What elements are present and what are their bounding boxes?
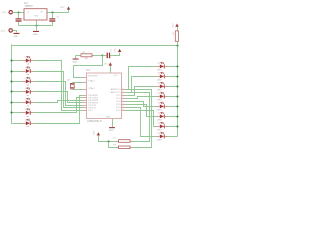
svg-text:18: 18: [122, 106, 124, 108]
pin P3.5/T1: [83, 108, 97, 110]
wire LED D7 to IC1 pin P3: [34, 96, 83, 124]
svg-text:red: red: [158, 132, 161, 134]
svg-text:LED?: LED?: [25, 78, 31, 80]
LED D2 (left column): [22, 67, 34, 76]
pin P1.5: [116, 103, 125, 106]
LED D11 (right column): [157, 92, 168, 102]
pin GND (IC1 bottom): [106, 116, 113, 127]
svg-text:19: 19: [122, 109, 124, 111]
svg-text:red: red: [26, 64, 29, 66]
LED D1 (left column): [22, 56, 34, 65]
wire LED D10 to right bus: [168, 86, 178, 88]
LED D3 (left column): [22, 77, 34, 86]
supply symbol VCC (IC1): [104, 62, 112, 65]
svg-text:LED?: LED?: [25, 57, 31, 59]
node bus junction row 5: [10, 101, 12, 103]
wire crystal to XTAL1: [73, 83, 83, 84]
LED D10 (right column): [157, 82, 168, 92]
wire C3 to ground rail: [52, 22, 54, 26]
pin P1.4: [116, 100, 125, 103]
svg-text:15: 15: [122, 97, 124, 99]
pin P3.7: [83, 110, 94, 112]
svg-text:IC1: IC1: [86, 69, 90, 72]
node rail/right-bus junction: [176, 44, 178, 46]
supply symbol VCC (top right): [173, 23, 179, 28]
wire junction down to R4: [109, 142, 117, 148]
wire LED D1 to IC1 pin P3: [34, 61, 83, 111]
svg-text:red: red: [26, 105, 29, 107]
svg-text:VCC: VCC: [60, 7, 65, 9]
svg-text:LED?: LED?: [25, 119, 31, 121]
wire bus to LED D1: [12, 60, 22, 62]
svg-text:red: red: [158, 82, 161, 84]
svg-text:red: red: [26, 84, 29, 86]
supply symbol VCC (reset): [118, 49, 121, 52]
svg-text:XTAL2: XTAL2: [88, 87, 95, 90]
node bus junction row 4: [10, 90, 12, 92]
svg-text:12: 12: [122, 88, 124, 90]
svg-text:AIN1/P1.1: AIN1/P1.1: [111, 91, 122, 94]
wire X1-2 to ground: [13, 31, 17, 33]
svg-text:VCC: VCC: [114, 75, 119, 77]
svg-text:P1.4: P1.4: [116, 101, 121, 103]
node VIN junction: [17, 11, 19, 13]
node right bus junction row 4: [176, 95, 178, 97]
wire bus to LED D7: [12, 123, 22, 125]
svg-text:VCC: VCC: [104, 64, 109, 66]
wire R2 to reset node: [94, 55, 103, 57]
wire IC1 pin P1.3 to LED D11: [126, 97, 157, 99]
svg-text:LED?: LED?: [157, 130, 163, 132]
svg-text:LED?: LED?: [157, 110, 163, 112]
svg-text:red: red: [26, 116, 29, 118]
capacitor C3: [49, 17, 59, 22]
wire IC2 output: [48, 12, 69, 14]
wire LED D6 to IC1 pin P3: [34, 98, 83, 113]
node ground-rail junction: [35, 24, 37, 26]
supply symbol VCC (bottom): [93, 130, 100, 136]
wire bus to LED D3: [12, 81, 22, 83]
pin P3.2/INT0: [83, 100, 99, 102]
ground symbol under IC2: [33, 31, 39, 36]
wire up to VCC symbol: [68, 10, 70, 13]
pin RST/VPP: [83, 75, 99, 77]
svg-text:LED?: LED?: [25, 67, 31, 69]
svg-text:LED?: LED?: [25, 98, 31, 100]
wire LED D8 to right bus: [168, 66, 178, 68]
svg-text:GND: GND: [13, 36, 18, 38]
pin AIN0/P1.0: [111, 88, 126, 91]
wire bus to LED D6: [12, 112, 22, 114]
LED D6 (left column): [22, 108, 34, 117]
wire junction down to C1: [18, 13, 20, 19]
pin AIN1/P1.1: [111, 91, 126, 94]
ground symbol at X1-2: [13, 33, 19, 38]
node right bus junction row 5: [176, 105, 178, 107]
left anode bus wire: [11, 45, 13, 124]
LED D9 (right column): [157, 72, 168, 82]
svg-text:17: 17: [122, 103, 124, 105]
svg-text:RST/VPP: RST/VPP: [88, 75, 98, 77]
wire IC1 pin P1.7 to LED D14: [126, 111, 157, 127]
node bus junction row 6: [10, 111, 12, 113]
wire IC1 pin P1.5 to LED D13: [126, 105, 157, 117]
wire LED D15 to right bus: [168, 136, 178, 138]
node reset junction: [101, 54, 103, 56]
LED D8 (right column): [157, 62, 168, 72]
LED D12 (right column): [157, 102, 168, 112]
VCC rail wire (top horizontal): [12, 45, 178, 47]
resistor R1 (series to VCC, top right): [173, 27, 179, 46]
connector pad X1-2: [1, 29, 13, 33]
pin XTAL2: [83, 87, 96, 90]
pin P1.6: [116, 106, 125, 109]
capacitor C2 (reset, polarized): [107, 48, 117, 58]
svg-text:GND: GND: [34, 16, 39, 18]
node right bus junction row 6: [176, 115, 178, 117]
svg-text:10u: 10u: [114, 48, 116, 51]
wire LED D13 to right bus: [168, 116, 178, 118]
ground rail under regulator: [19, 25, 53, 27]
node pull-up junction: [107, 140, 109, 142]
wire bus to LED D5: [12, 102, 22, 104]
svg-text:GND: GND: [109, 130, 114, 132]
wire X1-1 to IC2 input: [13, 12, 25, 14]
svg-text:red: red: [158, 112, 161, 114]
node bus junction row 1: [10, 59, 12, 61]
microcontroller IC1 AT89C2051-P: [86, 69, 121, 123]
pin XTAL1: [83, 79, 96, 82]
wire LED D9 to right bus: [168, 76, 178, 78]
svg-text:XTAL1: XTAL1: [88, 79, 95, 82]
resistor R3 (pull-up P1.1): [113, 138, 132, 142]
wire junction down to C3: [52, 13, 54, 19]
svg-text:P1.2: P1.2: [116, 95, 121, 97]
svg-text:14: 14: [122, 94, 124, 96]
LED D14 (right column): [157, 122, 168, 132]
svg-text:AIN0/P1.0: AIN0/P1.0: [111, 88, 122, 91]
svg-text:red: red: [158, 122, 161, 124]
svg-text:red: red: [26, 95, 29, 97]
wire LED D12 to right bus: [168, 106, 178, 108]
wire IC1 pin P1.2 to LED D10: [126, 87, 157, 96]
node right bus junction row 3: [176, 85, 178, 87]
svg-text:16: 16: [122, 100, 124, 102]
wire C2 to VCC: [111, 53, 120, 56]
wire IC1 pin P1.6 to LED D15: [126, 108, 157, 137]
svg-text:red: red: [158, 102, 161, 104]
svg-text:LED?: LED?: [25, 109, 31, 111]
resistor R2 10k (reset pulldown): [80, 52, 94, 60]
node right bus junction row 1: [176, 65, 178, 67]
svg-text:red: red: [158, 92, 161, 94]
wire LED D14 to right bus: [168, 126, 178, 128]
svg-text:P1.7: P1.7: [116, 110, 121, 112]
svg-text:13: 13: [122, 91, 124, 93]
wire bus to LED D4: [12, 91, 22, 93]
svg-text:GND: GND: [72, 61, 77, 63]
svg-text:LED?: LED?: [157, 80, 163, 82]
wire LED D5 to IC1 pin P3: [34, 101, 83, 103]
pin P1.3: [116, 97, 125, 100]
node right bus junction row 7: [176, 125, 178, 127]
wire reset node to C2: [103, 55, 107, 57]
pin P1.7: [116, 109, 125, 112]
node right bus junction row 2: [176, 75, 178, 77]
node VCC-out junction: [51, 11, 53, 13]
wire bus to LED D2: [12, 71, 22, 73]
crystal Q1: [67, 80, 74, 90]
voltage regulator IC2 7805TV: [24, 2, 47, 20]
pin P3.0/RXD: [83, 95, 99, 97]
LED D5 (left column): [22, 98, 34, 107]
LED D4 (left column): [22, 88, 34, 97]
LED D15 (right column): [157, 132, 168, 142]
svg-text:VCC: VCC: [93, 130, 95, 135]
capacitor C1: [16, 18, 26, 21]
LED D7 (left column): [22, 119, 34, 128]
svg-text:P1.3: P1.3: [116, 98, 121, 100]
wire VCC to resistor row: [99, 136, 117, 142]
wire crystal to XTAL2: [73, 89, 83, 91]
svg-text:LED?: LED?: [157, 140, 163, 142]
wire IC1 pin P1.4 to LED D12: [126, 102, 157, 107]
svg-text:red: red: [158, 62, 161, 64]
wire R4 to pin P1.0: [127, 90, 152, 148]
wire C1 to ground rail: [18, 22, 20, 26]
svg-text:P3.7: P3.7: [88, 110, 93, 112]
svg-text:P1.6: P1.6: [116, 107, 121, 109]
wire IC1 pin P1.1 to LED D9: [126, 77, 157, 93]
wire IC1 pin P1.0 to LED D8: [126, 67, 157, 90]
svg-text:X1-2: X1-2: [1, 30, 6, 32]
ground symbol at R2: [72, 59, 78, 64]
resistor R4 (pull-up P1.0): [113, 144, 132, 148]
pin P3.4/T0: [83, 105, 97, 107]
svg-text:GND: GND: [106, 116, 111, 118]
wire LED D4 to IC1 pin P3: [34, 92, 83, 103]
svg-text:GND: GND: [33, 34, 38, 36]
svg-text:LED?: LED?: [25, 88, 31, 90]
svg-text:10k: 10k: [85, 58, 88, 60]
pin P1.2: [116, 94, 125, 97]
svg-text:LED?: LED?: [157, 90, 163, 92]
node bus junction row 3: [10, 80, 12, 82]
svg-text:7805TV: 7805TV: [24, 5, 33, 8]
wire LED D3 to IC1 pin P3: [34, 82, 83, 106]
svg-text:red: red: [158, 72, 161, 74]
right anode bus wire: [177, 46, 179, 137]
svg-text:LED?: LED?: [157, 100, 163, 102]
wire IC2 GND pin down: [36, 21, 38, 31]
LED D13 (right column): [157, 112, 168, 122]
connector pad X1-1: [2, 11, 12, 14]
svg-text:AT89C2051-P: AT89C2051-P: [87, 120, 102, 123]
svg-text:VCC: VCC: [173, 23, 175, 28]
svg-text:X1-1: X1-1: [2, 12, 7, 14]
wire reset node to IC1 RST pin: [74, 56, 103, 78]
wire R2 left to ground: [76, 55, 80, 57]
svg-text:P1.5: P1.5: [116, 104, 121, 106]
supply symbol VCC (regulator output): [60, 6, 70, 9]
ground symbol under IC1: [109, 127, 115, 132]
wire LED D2 to IC1 pin P3: [34, 72, 83, 108]
svg-text:red: red: [26, 126, 29, 128]
svg-text:red: red: [26, 74, 29, 76]
pin P3.1/TXD: [83, 98, 99, 100]
node bus junction row 2: [10, 70, 12, 72]
pin P3.3/INT1: [83, 103, 99, 105]
pin VCC (IC1 top): [111, 66, 119, 77]
wire LED D11 to right bus: [168, 96, 178, 98]
svg-text:LED?: LED?: [157, 120, 163, 122]
svg-text:LED?: LED?: [157, 70, 163, 72]
wire R3 to pin P1.1: [127, 93, 150, 142]
